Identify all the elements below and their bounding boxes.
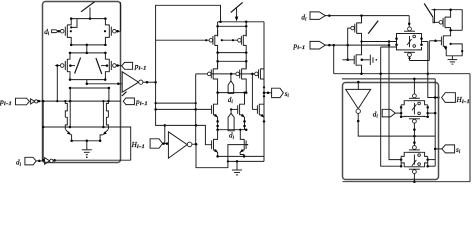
transistor N5 (upper right stack NMOS): [106, 100, 109, 117]
transistor N7 (eval left): [207, 61, 217, 92]
wire center drop: [86, 45, 88, 53]
wire TGB gate drop: [413, 123, 416, 146]
wire feedback loop top: [156, 5, 221, 82]
slash on left pass pair: [75, 58, 81, 74]
wire PMOS gate link: [156, 39, 209, 41]
transistor N1 (left pass transistor): [55, 53, 70, 80]
inverter I2 (H inverter): [168, 132, 197, 158]
wire mid node row: [216, 91, 247, 94]
wire TGC left lower link: [379, 47, 401, 166]
wire TGA right rail: [427, 42, 430, 75]
label p_{i-1} (right input): [293, 42, 306, 51]
label d_i (middle upper): [228, 96, 234, 105]
wire p node: [42, 100, 121, 103]
wire inverter out path: [357, 113, 435, 137]
label H_{i-1} (right): [456, 96, 471, 105]
capacitor C1: [361, 55, 378, 65]
transistor P5 (clocked PMOS right-top): [349, 16, 361, 39]
wire gate drop (N1 gate to p node): [56, 66, 58, 103]
wire inverter out loop: [195, 124, 248, 168]
input tag H_{i-1}: [150, 139, 163, 148]
wire row C: [69, 87, 110, 90]
wire stack bottoms: [70, 140, 101, 143]
output tag H_{i-1} (right): [442, 93, 456, 103]
transmission gate pair TGC: [400, 146, 435, 174]
wire left edge riser: [42, 101, 45, 161]
transistor P4 (middle right precharge PMOS): [238, 22, 247, 53]
wire H tap: [428, 74, 440, 99]
wire upper sum drop: [216, 120, 219, 130]
wire riser T5 gate: [252, 74, 255, 110]
output tag p_{i-1} (lower, to next stage): [123, 98, 134, 105]
label d_i (bottom left input): [16, 159, 22, 168]
label H_{i-1}: [131, 141, 146, 150]
label s_i (middle): [285, 90, 290, 99]
transistor P6 (clocked PMOS far right): [433, 9, 451, 31]
wire P5 gate riser: [346, 28, 349, 61]
buffer B1 (p input buffer): [31, 99, 44, 104]
input tag d_i: [52, 30, 59, 33]
buffer B2 (d input inverter): [45, 158, 56, 165]
wire clock riser: [89, 8, 92, 20]
node dots dbar input: [36, 160, 44, 163]
input tag p_{i-1} (right): [310, 41, 325, 49]
ground (middle): [232, 161, 242, 175]
output tag s_i (middle): [272, 88, 284, 97]
transistor N10 (sum pass left): [210, 93, 218, 122]
wire gate link upper NMOS: [154, 108, 209, 111]
label s_i (right): [456, 146, 461, 155]
wire sum mid row: [216, 128, 247, 131]
label p_{i-1}: [134, 62, 147, 71]
ground (left box): [82, 141, 92, 158]
wire stack gate line (right): [102, 100, 105, 128]
input tag d_i (right): [310, 12, 325, 20]
label d_i (right box input): [373, 110, 379, 119]
transistor N15 (far right lower NMOS): [429, 30, 450, 56]
wire source row (middle): [216, 155, 264, 158]
slash at p output tag: [122, 92, 127, 96]
transistor N11 (sum pass mid): [235, 92, 245, 130]
wire bottom rail (right): [343, 181, 471, 183]
wire left pass drain stub: [69, 64, 75, 67]
transmission gate pair TGA: [381, 27, 428, 57]
wire p cross link: [155, 102, 197, 104]
clock arrow (middle): [235, 8, 238, 21]
wire P4 gate link: [221, 39, 238, 41]
wire p to TG rail riser: [388, 40, 401, 159]
wire right pass drain stub: [101, 64, 108, 67]
label d_i (right input): [301, 13, 307, 22]
transistor N3 (upper left stack NMOS): [64, 100, 67, 117]
wire TGC bottom gate drop: [413, 174, 416, 183]
input tag d_i (down arrow): [228, 108, 235, 131]
inverter I1 (p feedback inverter): [122, 72, 157, 92]
clock slash (right cluster): [424, 3, 433, 17]
input tag d_i (up arrow): [228, 74, 234, 94]
wire bottom rail (middle): [227, 160, 264, 163]
wire loop right vertical: [263, 22, 265, 162]
wire TGB right rail: [428, 79, 437, 166]
wire node row (PMOS drains): [70, 44, 107, 47]
transistor P1 (left PMOS of cross-coupled pair): [59, 19, 71, 45]
label d_i (middle lower): [229, 132, 235, 141]
wire d riser to TGA: [408, 16, 411, 28]
wire row D: [216, 51, 247, 54]
wire loop left lower: [156, 82, 210, 145]
transistor N13 (sum lower right): [239, 129, 248, 157]
wire row A (pass sources): [69, 78, 107, 81]
inverter I3 (big down inverter): [346, 81, 371, 114]
transistor N8 (eval mid): [236, 61, 246, 92]
label d_i (top left input): [44, 28, 50, 37]
transistor N4 (lower left stack NMOS): [65, 117, 71, 141]
ground (right top): [448, 56, 458, 64]
wire top rail: [70, 17, 107, 20]
output tag p_{i-1} (pass gate node): [122, 62, 133, 69]
wire row E: [216, 53, 247, 68]
transistor P3 (middle left precharge PMOS): [209, 22, 218, 53]
wire right outer riser: [469, 74, 471, 182]
transistor N11b (sum pass right on loop): [255, 96, 265, 122]
wire p node right: [325, 44, 389, 47]
input tag d_i (right box): [382, 109, 401, 117]
clock slash (left box top): [81, 2, 95, 12]
label p_{i-1} (left input): [0, 97, 12, 107]
wire cross-couple stub: [70, 19, 106, 33]
wire lower gate row (dbar feed): [42, 126, 121, 129]
wire mid node far right: [449, 29, 462, 32]
wire s loop row: [342, 78, 435, 81]
transistor N12 (sum lower left): [210, 130, 218, 157]
right cell box: [343, 83, 439, 180]
wire row B to inverter: [86, 80, 123, 85]
wire TGA left link: [360, 40, 396, 42]
wire precharge rail: [218, 21, 264, 24]
transistor N14 (storage NMOS with cap): [342, 38, 361, 73]
wire H riser to feedback wire: [164, 124, 167, 143]
wire rail 2: [216, 25, 247, 28]
wire stack top drops: [70, 88, 109, 102]
wire d top rail: [325, 14, 409, 17]
left cell box: [43, 2, 121, 163]
wire s tap: [263, 92, 272, 98]
transistor N6 (lower right stack NMOS): [100, 117, 108, 141]
transistor P2 (right PMOS of cross-coupled pair): [105, 2, 120, 45]
transistor N2 (right pass transistor): [105, 53, 121, 80]
wire dbar rail: [53, 159, 131, 161]
clock slash (middle): [231, 2, 243, 12]
input tag d_i (bottom): [25, 157, 36, 165]
wire d long link: [334, 45, 470, 75]
slash (right of P5): [368, 21, 378, 34]
input tag p_{i-1}: [16, 98, 30, 105]
wire H node: [162, 142, 168, 145]
wire stack gate line (left): [69, 101, 72, 128]
label p_{i-1}: [135, 98, 148, 107]
transistor N9 (eval right on loop): [255, 61, 266, 89]
transmission gate pair TGB: [400, 79, 429, 123]
wire dbar right riser (outside box): [121, 127, 131, 160]
wire s node: [435, 148, 442, 150]
output tag s_i (right): [442, 145, 455, 153]
node dot d_i: [58, 30, 61, 33]
wire eval gate row: [196, 73, 255, 76]
wire TGA bottom gate drop: [408, 41, 429, 61]
wire top right rail: [432, 8, 463, 30]
wire mid rail: [69, 52, 107, 55]
slash on right pass pair: [96, 58, 102, 74]
wire riser mid: [195, 74, 197, 144]
wire drain loop (far right): [446, 43, 463, 56]
